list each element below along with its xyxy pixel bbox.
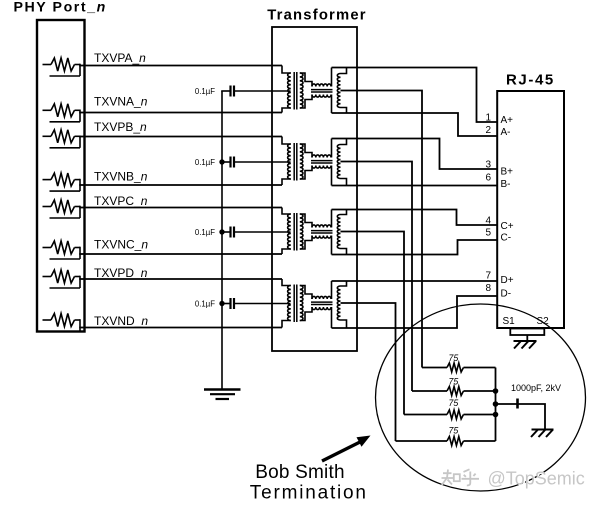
junction cap bus C3 <box>219 229 224 234</box>
svg-text:B-: B- <box>501 179 511 190</box>
wire TXVPD_n from PHY to transformer <box>84 278 283 280</box>
wire T4 secondary center tap to termination <box>341 303 396 441</box>
wire TXVNA_n from PHY to transformer <box>84 112 283 114</box>
junction cap bus C2 <box>219 159 224 164</box>
wire TXVNC_n from PHY to transformer <box>84 253 283 255</box>
svg-text:A-: A- <box>501 127 511 138</box>
svg-text:TXVPD_n: TXVPD_n <box>94 266 148 280</box>
transformer T4 windings <box>282 279 347 328</box>
svg-text:0.1µF: 0.1µF <box>195 300 215 309</box>
resistor internal TXVNB <box>43 173 85 191</box>
wire B+ to pin 3 <box>332 139 498 170</box>
svg-text:TXVPC_n: TXVPC_n <box>94 194 148 208</box>
wire C- to pin 5 <box>332 240 498 255</box>
svg-text:4: 4 <box>485 216 491 227</box>
wire shield stub <box>526 335 528 341</box>
svg-text:75: 75 <box>449 426 459 436</box>
svg-text:RJ-45: RJ-45 <box>506 72 555 89</box>
svg-text:1000pF, 2kV: 1000pF, 2kV <box>511 383 561 393</box>
resistor internal TXVPA <box>43 58 85 76</box>
transformer box T1-T4 <box>272 27 357 351</box>
resistor internal TXVNA <box>43 104 85 122</box>
resistor internal TXVPB <box>43 130 85 148</box>
svg-text:75: 75 <box>449 398 459 408</box>
arrow to termination <box>322 436 371 462</box>
svg-text:5: 5 <box>485 228 491 239</box>
wire T3 secondary center tap to termination <box>341 232 405 415</box>
svg-text:8: 8 <box>485 283 491 294</box>
wire 0.1uF bus vertical <box>221 91 223 390</box>
svg-text:Bob Smith: Bob Smith <box>255 462 344 483</box>
wire TXVPC_n from PHY to transformer <box>84 207 283 209</box>
transformer T2 windings <box>282 137 347 186</box>
svg-text:@TopSemic: @TopSemic <box>488 469 585 489</box>
resistor 75 ohm R1 <box>422 363 496 372</box>
svg-text:3: 3 <box>485 160 491 171</box>
svg-text:2: 2 <box>485 125 491 136</box>
svg-text:75: 75 <box>449 377 459 387</box>
capacitor 0.1uF C3 <box>221 227 290 238</box>
svg-text:7: 7 <box>485 271 491 282</box>
svg-text:D-: D- <box>501 289 512 300</box>
resistor 75 ohm R3 <box>404 410 496 419</box>
wire A- to pin 2 <box>332 113 498 136</box>
junction cap tap bus <box>493 401 499 407</box>
svg-text:6: 6 <box>485 173 491 184</box>
svg-text:C-: C- <box>501 233 512 244</box>
svg-text:TXVNC_n: TXVNC_n <box>94 238 148 252</box>
junction cap bus C4 <box>219 301 224 306</box>
capacitor 0.1uF C1 <box>221 86 290 97</box>
svg-text:Transformer: Transformer <box>267 7 367 23</box>
resistor internal TXVND <box>43 314 85 332</box>
svg-text:B+: B+ <box>501 167 514 178</box>
svg-text:TXVNB_n: TXVNB_n <box>94 170 148 184</box>
resistor internal TXVPD <box>43 270 85 288</box>
resistor 75 ohm R4 <box>396 437 496 446</box>
resistor internal TXVPC <box>43 200 85 218</box>
svg-text:TXVND_n: TXVND_n <box>94 314 148 328</box>
svg-text:0.1µF: 0.1µF <box>195 228 215 237</box>
capacitor 1000pF 2kV <box>496 399 546 430</box>
wire C+ to pin 4 <box>332 210 498 226</box>
svg-text:0.1µF: 0.1µF <box>195 87 215 96</box>
wire TXVNB_n from PHY to transformer <box>84 184 283 186</box>
resistor 75 ohm R2 <box>412 387 496 396</box>
RJ-45 connector J1 <box>497 91 564 328</box>
transformer T3 windings <box>282 208 347 255</box>
watermark zhihu TopSemic <box>442 469 587 490</box>
svg-text:D+: D+ <box>501 275 514 286</box>
wire T1 secondary center tap to termination <box>341 91 423 368</box>
svg-text:S1: S1 <box>503 316 516 327</box>
svg-text:Termination: Termination <box>250 483 368 504</box>
chassis ground 1000pF <box>531 430 554 438</box>
svg-text:C+: C+ <box>501 221 514 232</box>
resistor internal TXVNC <box>43 241 85 259</box>
wire T2 secondary center tap to termination <box>341 162 413 392</box>
svg-text:PHY Port_n: PHY Port_n <box>14 0 107 16</box>
junction R3 bus <box>493 412 499 418</box>
svg-text:TXVPA_n: TXVPA_n <box>94 51 146 65</box>
wire B- to pin 6 <box>332 185 498 187</box>
chassis ground shield <box>514 341 537 349</box>
wire TXVND_n from PHY to transformer <box>84 327 283 329</box>
capacitor 0.1uF C2 <box>221 157 290 168</box>
wire D+ to pin 7 <box>332 280 498 282</box>
wire D- to pin 8 <box>332 296 498 328</box>
wire TXVPB_n from PHY to transformer <box>84 136 283 138</box>
svg-text:TXVNA_n: TXVNA_n <box>94 95 148 109</box>
transformer T1 windings <box>282 66 347 114</box>
svg-text:0.1µF: 0.1µF <box>195 158 215 167</box>
wire A+ to pin 1 <box>332 68 498 123</box>
svg-text:75: 75 <box>449 353 459 363</box>
capacitor 0.1uF C4 <box>221 298 290 309</box>
svg-text:A+: A+ <box>501 115 514 126</box>
ground signal GND under cap bus <box>204 390 241 400</box>
Bob Smith termination ellipse <box>376 304 586 491</box>
wire bob smith common bus <box>495 368 497 442</box>
wire TXVPA_n from PHY to transformer <box>84 65 283 67</box>
junction R2 bus <box>493 388 499 394</box>
svg-text:TXVPB_n: TXVPB_n <box>94 120 147 134</box>
PHY Port_n box U1 <box>37 20 85 332</box>
RJ-45 shield tab <box>510 329 544 336</box>
svg-text:1: 1 <box>485 113 491 124</box>
